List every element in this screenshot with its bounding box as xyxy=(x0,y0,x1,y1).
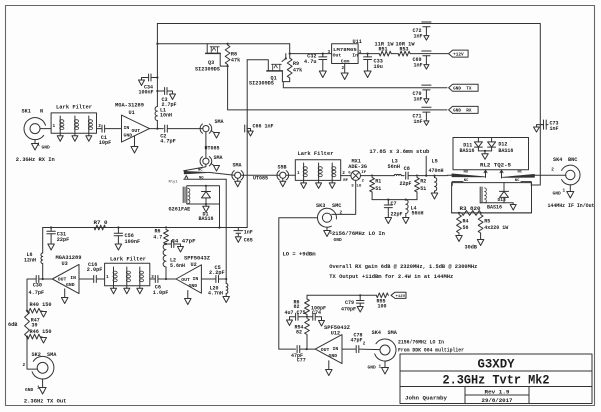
svg-text:MGA-31289: MGA-31289 xyxy=(115,103,144,109)
ground C56 xyxy=(115,244,122,250)
svg-text:R51: R51 xyxy=(379,47,388,53)
wire SK3 left to LO amp xyxy=(279,218,318,349)
svg-text:C8: C8 xyxy=(404,166,410,172)
svg-text:5.6nH: 5.6nH xyxy=(170,263,185,269)
ground C31 xyxy=(48,244,55,250)
svg-text:51: 51 xyxy=(375,186,381,192)
svg-text:1nF: 1nF xyxy=(414,34,423,40)
filter FL3 Lark Filter box xyxy=(105,256,150,286)
wire relay coil to TX rail xyxy=(218,204,220,229)
wire S5B to lark2 xyxy=(286,174,295,176)
wire C30 to U3 xyxy=(39,278,52,280)
svg-text:30dB: 30dB xyxy=(465,244,477,250)
pin 2 lark2 xyxy=(342,171,345,176)
capacitor C31 22pF xyxy=(47,228,69,245)
svg-text:2: 2 xyxy=(340,210,343,215)
title date 29/8/2017 xyxy=(482,398,513,404)
label 2156/76MHz LO In sk5 xyxy=(398,339,444,345)
ground R5 xyxy=(477,240,484,246)
pin 2 SK4 xyxy=(551,168,554,173)
ground U2 xyxy=(185,299,192,305)
svg-text:R46 150: R46 150 xyxy=(30,329,52,335)
title 2.3GHz Tvtr Mk2 xyxy=(443,374,550,388)
svg-text:BAS16: BAS16 xyxy=(487,205,502,211)
diode D1 BAS16 xyxy=(199,185,214,223)
svg-text:IN: IN xyxy=(124,125,130,131)
capacitor C2 4.7pF xyxy=(160,125,176,144)
pin 2 SK2 xyxy=(23,363,26,368)
wire SMA to relay NC xyxy=(184,164,206,171)
label 2.3GHz RX In xyxy=(16,157,55,163)
ground lark2 coil c xyxy=(329,180,335,188)
svg-text:IN: IN xyxy=(333,346,339,352)
svg-text:U12: U12 xyxy=(331,330,340,336)
relay RL2 right arm xyxy=(502,174,535,177)
wire U12 in to C78 xyxy=(342,348,356,350)
svg-text:Rly1: Rly1 xyxy=(169,180,179,185)
svg-text:ADE-3G: ADE-3G xyxy=(348,164,367,170)
ground SMA rx upper xyxy=(211,131,220,139)
svg-text:1nF: 1nF xyxy=(414,63,423,69)
svg-text:C30: C30 xyxy=(33,282,42,288)
svg-text:1: 1 xyxy=(297,171,300,176)
inductor L2 5.6nH xyxy=(163,244,185,280)
connector SK2 SMA xyxy=(32,352,58,379)
diode D13 BAS16 xyxy=(487,183,509,211)
connector SK1 N xyxy=(22,109,46,140)
ground C74 xyxy=(319,321,325,327)
svg-text:NO: NO xyxy=(199,177,204,181)
svg-text:10pF: 10pF xyxy=(99,140,111,146)
capacitor C72 1nF feedthrough xyxy=(413,22,432,40)
svg-text:39: 39 xyxy=(32,323,38,329)
relay Rly1 NC contact xyxy=(184,168,203,172)
inductor L5 470nH xyxy=(429,158,444,193)
svg-text:2156/76MHz LO In: 2156/76MHz LO In xyxy=(332,231,385,237)
wire Q3 gate to R8 xyxy=(220,53,227,66)
svg-text:R9: R9 xyxy=(293,61,299,67)
label 6dB xyxy=(8,322,17,328)
svg-text:470nH: 470nH xyxy=(429,168,444,174)
capacitor C66 1nF xyxy=(245,124,274,137)
svg-text:RF: RF xyxy=(343,179,348,183)
svg-text:D12: D12 xyxy=(498,142,507,148)
svg-text:C4 47pF: C4 47pF xyxy=(172,238,196,244)
svg-text:4.7pF: 4.7pF xyxy=(29,290,45,296)
ground RL2 coil xyxy=(510,205,516,211)
svg-text:GND: GND xyxy=(25,387,34,393)
svg-text:2: 2 xyxy=(551,168,554,173)
ground C79 xyxy=(357,307,363,313)
svg-text:R7 0: R7 0 xyxy=(94,220,108,226)
svg-text:OUT: OUT xyxy=(58,276,67,282)
svg-text:56: 56 xyxy=(463,225,469,231)
svg-text:2: 2 xyxy=(23,363,26,368)
wire regulator out to switch xyxy=(289,44,332,55)
relay Rly1 coil G261FAE xyxy=(169,186,220,213)
ground C32 xyxy=(319,71,326,78)
svg-text:56nH: 56nH xyxy=(388,164,400,170)
ground SK3 xyxy=(324,231,331,237)
pin 2 SK3 xyxy=(340,210,343,215)
capacitor C34 100nF xyxy=(139,74,158,95)
wire U1 out to C2 xyxy=(150,128,164,130)
svg-text:1nF: 1nF xyxy=(550,126,559,132)
svg-text:1nF: 1nF xyxy=(414,97,423,103)
relay Rly1 pivot xyxy=(169,176,188,185)
svg-text:10u: 10u xyxy=(374,64,383,70)
svg-text:IN: IN xyxy=(70,275,76,281)
ground L4 xyxy=(403,218,410,224)
label GND sk3 xyxy=(334,237,343,243)
svg-text:2.0pF: 2.0pF xyxy=(87,267,103,273)
wire C30 to pad xyxy=(27,279,36,311)
svg-text:SI2309DS: SI2309DS xyxy=(249,81,274,87)
mixer MX1 ADE-3G xyxy=(348,158,367,180)
filter FL1 Lark Filter box xyxy=(51,105,96,134)
ground U3 xyxy=(61,298,67,304)
ground lark2 coil a xyxy=(301,180,307,188)
connector SK4 BNC xyxy=(553,157,580,185)
svg-text:G3XDY: G3XDY xyxy=(478,358,515,372)
label NO left xyxy=(464,171,469,175)
svg-text:SK4: SK4 xyxy=(553,157,562,163)
svg-text:R2: R2 xyxy=(420,178,426,184)
wire Q1 gate to GND TX net xyxy=(282,71,447,88)
ground U11 com xyxy=(341,73,348,80)
capacitor C1 10pF xyxy=(99,125,111,146)
svg-text:S5B: S5B xyxy=(278,164,287,170)
pin 2 lark3 xyxy=(151,275,154,280)
wire D11 D12 common xyxy=(478,150,491,154)
resistor R47 39 xyxy=(25,311,40,337)
capacitor C6 1.0pF xyxy=(153,276,169,296)
svg-text:SPF5043Z: SPF5043Z xyxy=(184,256,210,262)
svg-text:Rev 1.9: Rev 1.9 xyxy=(485,390,510,396)
wire C16 to lark3 xyxy=(97,278,105,280)
svg-text:TX Output +11dBm for 2.4W in a: TX Output +11dBm for 2.4W in at 144MHz xyxy=(329,274,453,280)
resistor R55 100 xyxy=(376,293,388,310)
ground D1 xyxy=(203,204,210,212)
connector SK5 SMA xyxy=(372,330,398,361)
svg-text:LO: LO xyxy=(357,184,362,188)
svg-text:UT085: UT085 xyxy=(253,175,268,181)
wire pad to SK2 xyxy=(27,337,37,370)
wire U2 in to C5 xyxy=(201,278,215,280)
svg-text:+12V: +12V xyxy=(453,52,464,57)
label NC right top xyxy=(518,171,523,175)
wire U3 gnd xyxy=(64,289,66,298)
capacitor C71 1nF feedthrough xyxy=(413,107,432,125)
inductor L20 4.7nH xyxy=(208,279,228,297)
capacitor C4 47pF xyxy=(165,238,196,247)
capacitor C65 1nF xyxy=(234,228,253,244)
svg-text:2.3GHz Tvtr Mk2: 2.3GHz Tvtr Mk2 xyxy=(443,374,550,388)
capacitor C16 2.0pF xyxy=(87,262,103,283)
wire Q1 drain down to TX rail xyxy=(220,60,248,228)
svg-text:N: N xyxy=(40,109,43,115)
pin 2 SK5 xyxy=(363,341,366,346)
wire U3 in xyxy=(79,278,93,280)
op-amp U12 SPF5043Z xyxy=(315,325,350,364)
op-amp U3 MGA31289 xyxy=(52,255,81,294)
ground lark1 coil b xyxy=(72,133,78,141)
svg-text:4.7: 4.7 xyxy=(153,234,162,240)
svg-text:SK4: SK4 xyxy=(372,330,381,336)
op-amp U1 MGA-31289 xyxy=(115,103,150,143)
regulator U11 LM78M05 xyxy=(332,39,362,64)
ground SMA rx lower xyxy=(211,164,220,172)
svg-text:SI2309DS: SI2309DS xyxy=(195,67,220,73)
svg-text:BNC: BNC xyxy=(568,157,577,163)
ground R40 xyxy=(41,312,47,318)
coax UT085 rx xyxy=(205,132,220,158)
ground C75 xyxy=(287,320,293,326)
svg-text:SK1: SK1 xyxy=(22,109,31,115)
svg-text:IF: IF xyxy=(361,171,366,175)
capacitor C56 100nF xyxy=(114,228,140,245)
pin 1 SK1 gnd xyxy=(35,140,50,151)
pin 6 MX1 RF xyxy=(343,172,351,183)
svg-text:OUT: OUT xyxy=(321,347,330,353)
svg-text:MGA31289: MGA31289 xyxy=(56,255,82,261)
pin 1 U11 xyxy=(359,50,362,55)
svg-text:82: 82 xyxy=(296,329,302,335)
ground C34 xyxy=(139,80,145,86)
resistor R6 82 lo xyxy=(294,299,310,317)
resistor R7 0 xyxy=(94,220,108,230)
svg-text:10nH: 10nH xyxy=(160,112,172,118)
ground lark1 coil a xyxy=(57,133,63,141)
diode D12 BAS16 xyxy=(488,138,514,154)
svg-text:R1: R1 xyxy=(375,178,381,184)
svg-text:4.7u: 4.7u xyxy=(304,59,316,65)
svg-text:2156/76MHz LO In: 2156/76MHz LO In xyxy=(398,339,444,345)
ground S5B xyxy=(280,178,286,186)
wire lark1 to C1 xyxy=(97,128,102,130)
svg-text:SMC: SMC xyxy=(332,203,341,209)
wire C6 to U2 xyxy=(158,278,176,280)
svg-text:C65: C65 xyxy=(244,237,253,243)
svg-text:100nF: 100nF xyxy=(125,239,141,245)
title callsign G3XDY xyxy=(478,358,515,372)
svg-text:L5: L5 xyxy=(432,158,438,164)
title author John Quarmby xyxy=(405,395,448,402)
svg-text:GND RX: GND RX xyxy=(453,109,472,114)
capacitor C8 22pF xyxy=(400,166,412,187)
resistor R2 51 xyxy=(415,178,427,200)
label 2.3GHz TX Out xyxy=(24,398,67,404)
ground R4 xyxy=(456,236,463,242)
transistor Q1 SI2309DS xyxy=(249,54,287,87)
pin 2 MX1 IF xyxy=(361,171,366,183)
wire U12 gnd xyxy=(328,361,330,370)
svg-text:47pF: 47pF xyxy=(351,338,363,344)
connector S5B xyxy=(277,164,289,180)
wire rail corner to L6 xyxy=(42,228,44,254)
svg-text:SMA: SMA xyxy=(47,352,57,358)
svg-text:SMA: SMA xyxy=(215,119,224,125)
svg-text:17.85 x 3.6mm stub: 17.85 x 3.6mm stub xyxy=(369,149,429,155)
wire SK1 to filter xyxy=(40,128,51,130)
relay RL2 right NC contact xyxy=(515,179,532,185)
ground D11 D12 xyxy=(482,154,489,160)
ground C3 xyxy=(170,94,176,100)
svg-text:D13: D13 xyxy=(498,197,507,203)
wire R6b top xyxy=(306,295,308,299)
svg-text:John Quarmby: John Quarmby xyxy=(405,395,448,402)
filter FL2 Lark Filter box xyxy=(295,151,340,180)
svg-text:12nH: 12nH xyxy=(24,257,36,263)
ground R46 xyxy=(41,338,47,344)
title block frame xyxy=(400,354,592,404)
relay RL2 diode box xyxy=(453,138,529,170)
svg-text:4u7 C75: 4u7 C75 xyxy=(285,310,306,316)
wire C1 to U1 xyxy=(105,128,122,130)
svg-text:47k: 47k xyxy=(293,68,302,74)
svg-text:Overall RX gain 6dB @ 2320MHz,: Overall RX gain 6dB @ 2320MHz, 1.5dB @ 2… xyxy=(329,264,477,270)
svg-text:R53: R53 xyxy=(400,47,409,53)
svg-text:R3 820: R3 820 xyxy=(460,206,481,212)
resistor R4 56 xyxy=(457,215,469,236)
svg-text:GND: GND xyxy=(66,282,75,288)
pin 3 MX1 LO xyxy=(351,184,362,188)
relay RL2 left arm xyxy=(452,174,486,177)
svg-text:100nF: 100nF xyxy=(139,89,154,95)
wire relay NO to TX input xyxy=(225,179,227,279)
label 2156/76MHz LO In sk3 xyxy=(332,231,385,237)
resistor R1 51 xyxy=(370,178,382,200)
svg-text:U3: U3 xyxy=(62,261,68,267)
pin 1 SK2 gnd xyxy=(25,379,43,393)
resistor R9 47k xyxy=(287,54,302,82)
ground SK2 xyxy=(39,388,46,395)
resistor R54 82 xyxy=(295,319,310,350)
ground U1 xyxy=(131,147,138,154)
ground SK1 xyxy=(32,144,39,151)
svg-text:IN: IN xyxy=(193,276,199,282)
wire RF to RL2 left arm xyxy=(447,174,452,176)
svg-text:1nF: 1nF xyxy=(244,229,253,235)
title rev 1.9 xyxy=(485,390,510,396)
ground SMA mixer row xyxy=(235,178,241,186)
svg-text:2.2pF: 2.2pF xyxy=(209,270,225,276)
ground lark2 coil b xyxy=(316,180,322,188)
svg-text:1.0pF: 1.0pF xyxy=(153,290,169,296)
capacitor C75 4u7 xyxy=(285,310,309,320)
svg-text:Lark Filter: Lark Filter xyxy=(56,105,92,111)
svg-text:47k: 47k xyxy=(231,57,240,63)
relay RL2 left NC contact xyxy=(452,179,469,185)
wire C77 to U12 xyxy=(300,348,315,350)
svg-text:100: 100 xyxy=(378,304,387,310)
connector SMA rx lower xyxy=(200,155,222,166)
capacitor C70 1nF feedthrough xyxy=(413,85,432,103)
pin 1 lark3 xyxy=(106,275,109,280)
capacitor C79 470pF xyxy=(341,295,364,312)
resistor R6 4.7 xyxy=(153,228,168,244)
svg-text:GND: GND xyxy=(334,237,343,243)
svg-text:SMA: SMA xyxy=(388,330,398,336)
wire TX +5V rail xyxy=(43,226,248,228)
svg-text:29/8/2017: 29/8/2017 xyxy=(482,398,513,404)
ground C33 xyxy=(364,71,371,78)
wire MX1 LO to SK3 xyxy=(332,180,356,214)
ground C7 xyxy=(385,218,392,224)
svg-text:2.3GHz TX Out: 2.3GHz TX Out xyxy=(24,398,67,404)
wire +5V RX feed vertical xyxy=(156,24,158,107)
wire +5V top rail to relay RL2 xyxy=(157,24,540,186)
svg-text:OUT: OUT xyxy=(132,128,141,134)
svg-text:1nF: 1nF xyxy=(414,119,423,125)
capacitor C77 47pF xyxy=(291,346,306,364)
relay RL2 coil box TQ2-5 xyxy=(452,183,532,213)
ground lark3 coil b xyxy=(124,286,130,294)
svg-text:C79: C79 xyxy=(345,300,354,306)
wire D13 coil common xyxy=(480,203,513,205)
op-amp U2 SPF5043Z xyxy=(176,256,210,294)
svg-text:1: 1 xyxy=(563,189,566,194)
wire U1 gnd xyxy=(134,136,136,147)
wire C8 to R2 L5 stub xyxy=(409,175,448,177)
inductor L3 56nH xyxy=(372,158,404,175)
ground C4 xyxy=(178,247,184,253)
svg-text:RL2 TQ2-5: RL2 TQ2-5 xyxy=(480,163,511,169)
svg-text:470pF: 470pF xyxy=(341,306,356,312)
svg-text:BAS16: BAS16 xyxy=(199,216,214,222)
resistor R53 10R 1W xyxy=(396,41,415,56)
pin 2 lark1 xyxy=(98,124,101,129)
wire +12V LO feed xyxy=(307,294,376,296)
svg-text:4.7nH: 4.7nH xyxy=(208,290,223,296)
diode D11 BAS16 xyxy=(460,138,483,154)
wire RL2 to SK4 xyxy=(534,174,565,176)
capacitor C30 4.7pF xyxy=(29,276,45,296)
svg-text:LM78M05: LM78M05 xyxy=(333,47,357,53)
inductor L4 56nH xyxy=(406,200,424,218)
svg-text:Lark Filter: Lark Filter xyxy=(110,256,146,262)
svg-text:1: 1 xyxy=(379,364,382,369)
svg-text:NO: NO xyxy=(464,171,469,175)
label 30dB xyxy=(465,244,477,250)
resistor R51 11R 1W xyxy=(375,41,394,56)
relay RL2 right pivot xyxy=(500,170,503,178)
wire MX1 IF to R1 xyxy=(361,175,374,177)
svg-text:1: 1 xyxy=(53,124,56,129)
coax UT085 mixer row xyxy=(241,175,280,181)
ground lark1 coil c xyxy=(86,133,92,141)
pin 1 SK3 gnd xyxy=(327,227,333,235)
svg-text:4x220 1W: 4x220 1W xyxy=(484,225,508,231)
svg-text:51: 51 xyxy=(420,186,426,192)
svg-text:GND: GND xyxy=(42,144,51,150)
svg-text:11R 1W: 11R 1W xyxy=(375,41,394,47)
pin 1 lark1 xyxy=(53,124,56,129)
wire C2 to SMA xyxy=(168,128,203,130)
svg-text:R5: R5 xyxy=(484,218,490,224)
svg-text:R4: R4 xyxy=(463,218,469,224)
net tag +12V xyxy=(449,50,469,57)
svg-text:NC: NC xyxy=(518,171,523,175)
svg-text:2.3GHz RX In: 2.3GHz RX In xyxy=(16,157,55,163)
wire LO amp out xyxy=(279,348,296,350)
svg-text:BAS16: BAS16 xyxy=(498,148,513,154)
label RL2 TQ2-5 xyxy=(480,163,511,169)
svg-text:From DDK 004 multiplier: From DDK 004 multiplier xyxy=(398,347,464,353)
inductor L1 10nH xyxy=(155,107,172,129)
svg-text:1: 1 xyxy=(106,275,109,280)
svg-text:R40 150: R40 150 xyxy=(30,302,52,308)
